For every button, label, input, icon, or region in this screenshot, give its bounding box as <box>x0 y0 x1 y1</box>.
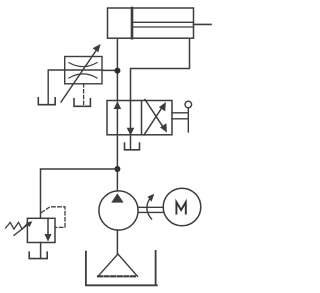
wire cap-end: cylinder to valve port A <box>116 38 118 101</box>
RV1 spring <box>6 222 28 229</box>
RV1 outlet wire <box>40 243 42 258</box>
node A (junction dot) <box>114 68 120 74</box>
wire FC output to node A <box>102 69 117 71</box>
relief valve RV1 body <box>27 218 55 242</box>
tank T4 (relief drain) <box>29 252 47 258</box>
RV1 pilot dashed line <box>42 207 66 228</box>
reservoir tank T5 <box>86 251 158 285</box>
strainer S1 <box>98 254 138 276</box>
pump P1 <box>99 191 138 230</box>
lever actuator with knob <box>172 101 192 132</box>
directional valve V1 4/2 body <box>107 101 172 135</box>
V1 right box crossed arrows <box>144 100 167 136</box>
RV1 adjust arrow <box>14 221 32 235</box>
wire rod-end: cylinder to valve port B <box>131 38 190 101</box>
wire T port to tank <box>130 135 132 150</box>
suction wire pump to strainer <box>116 230 118 254</box>
drive shaft <box>138 207 163 212</box>
rotation arrow <box>147 194 155 219</box>
V1 left box down arrow <box>127 101 135 136</box>
V1 left box up arrow <box>114 101 122 135</box>
motor label M <box>176 202 185 214</box>
cylinder C1 <box>108 8 212 38</box>
tank T2 (FC dashed drain) <box>74 99 90 107</box>
tank T3 (below valve) <box>125 143 140 150</box>
wire branch to relief valve <box>41 169 118 218</box>
pilot drain dashed line <box>83 84 85 105</box>
wire P: pump to valve <box>116 135 118 191</box>
node B (junction dot) <box>114 166 120 172</box>
flow control valve FC1 <box>61 44 102 102</box>
wire FC left drain <box>48 70 64 104</box>
motor M1 <box>163 188 201 226</box>
tank T1 (FC left drain) <box>38 98 55 105</box>
